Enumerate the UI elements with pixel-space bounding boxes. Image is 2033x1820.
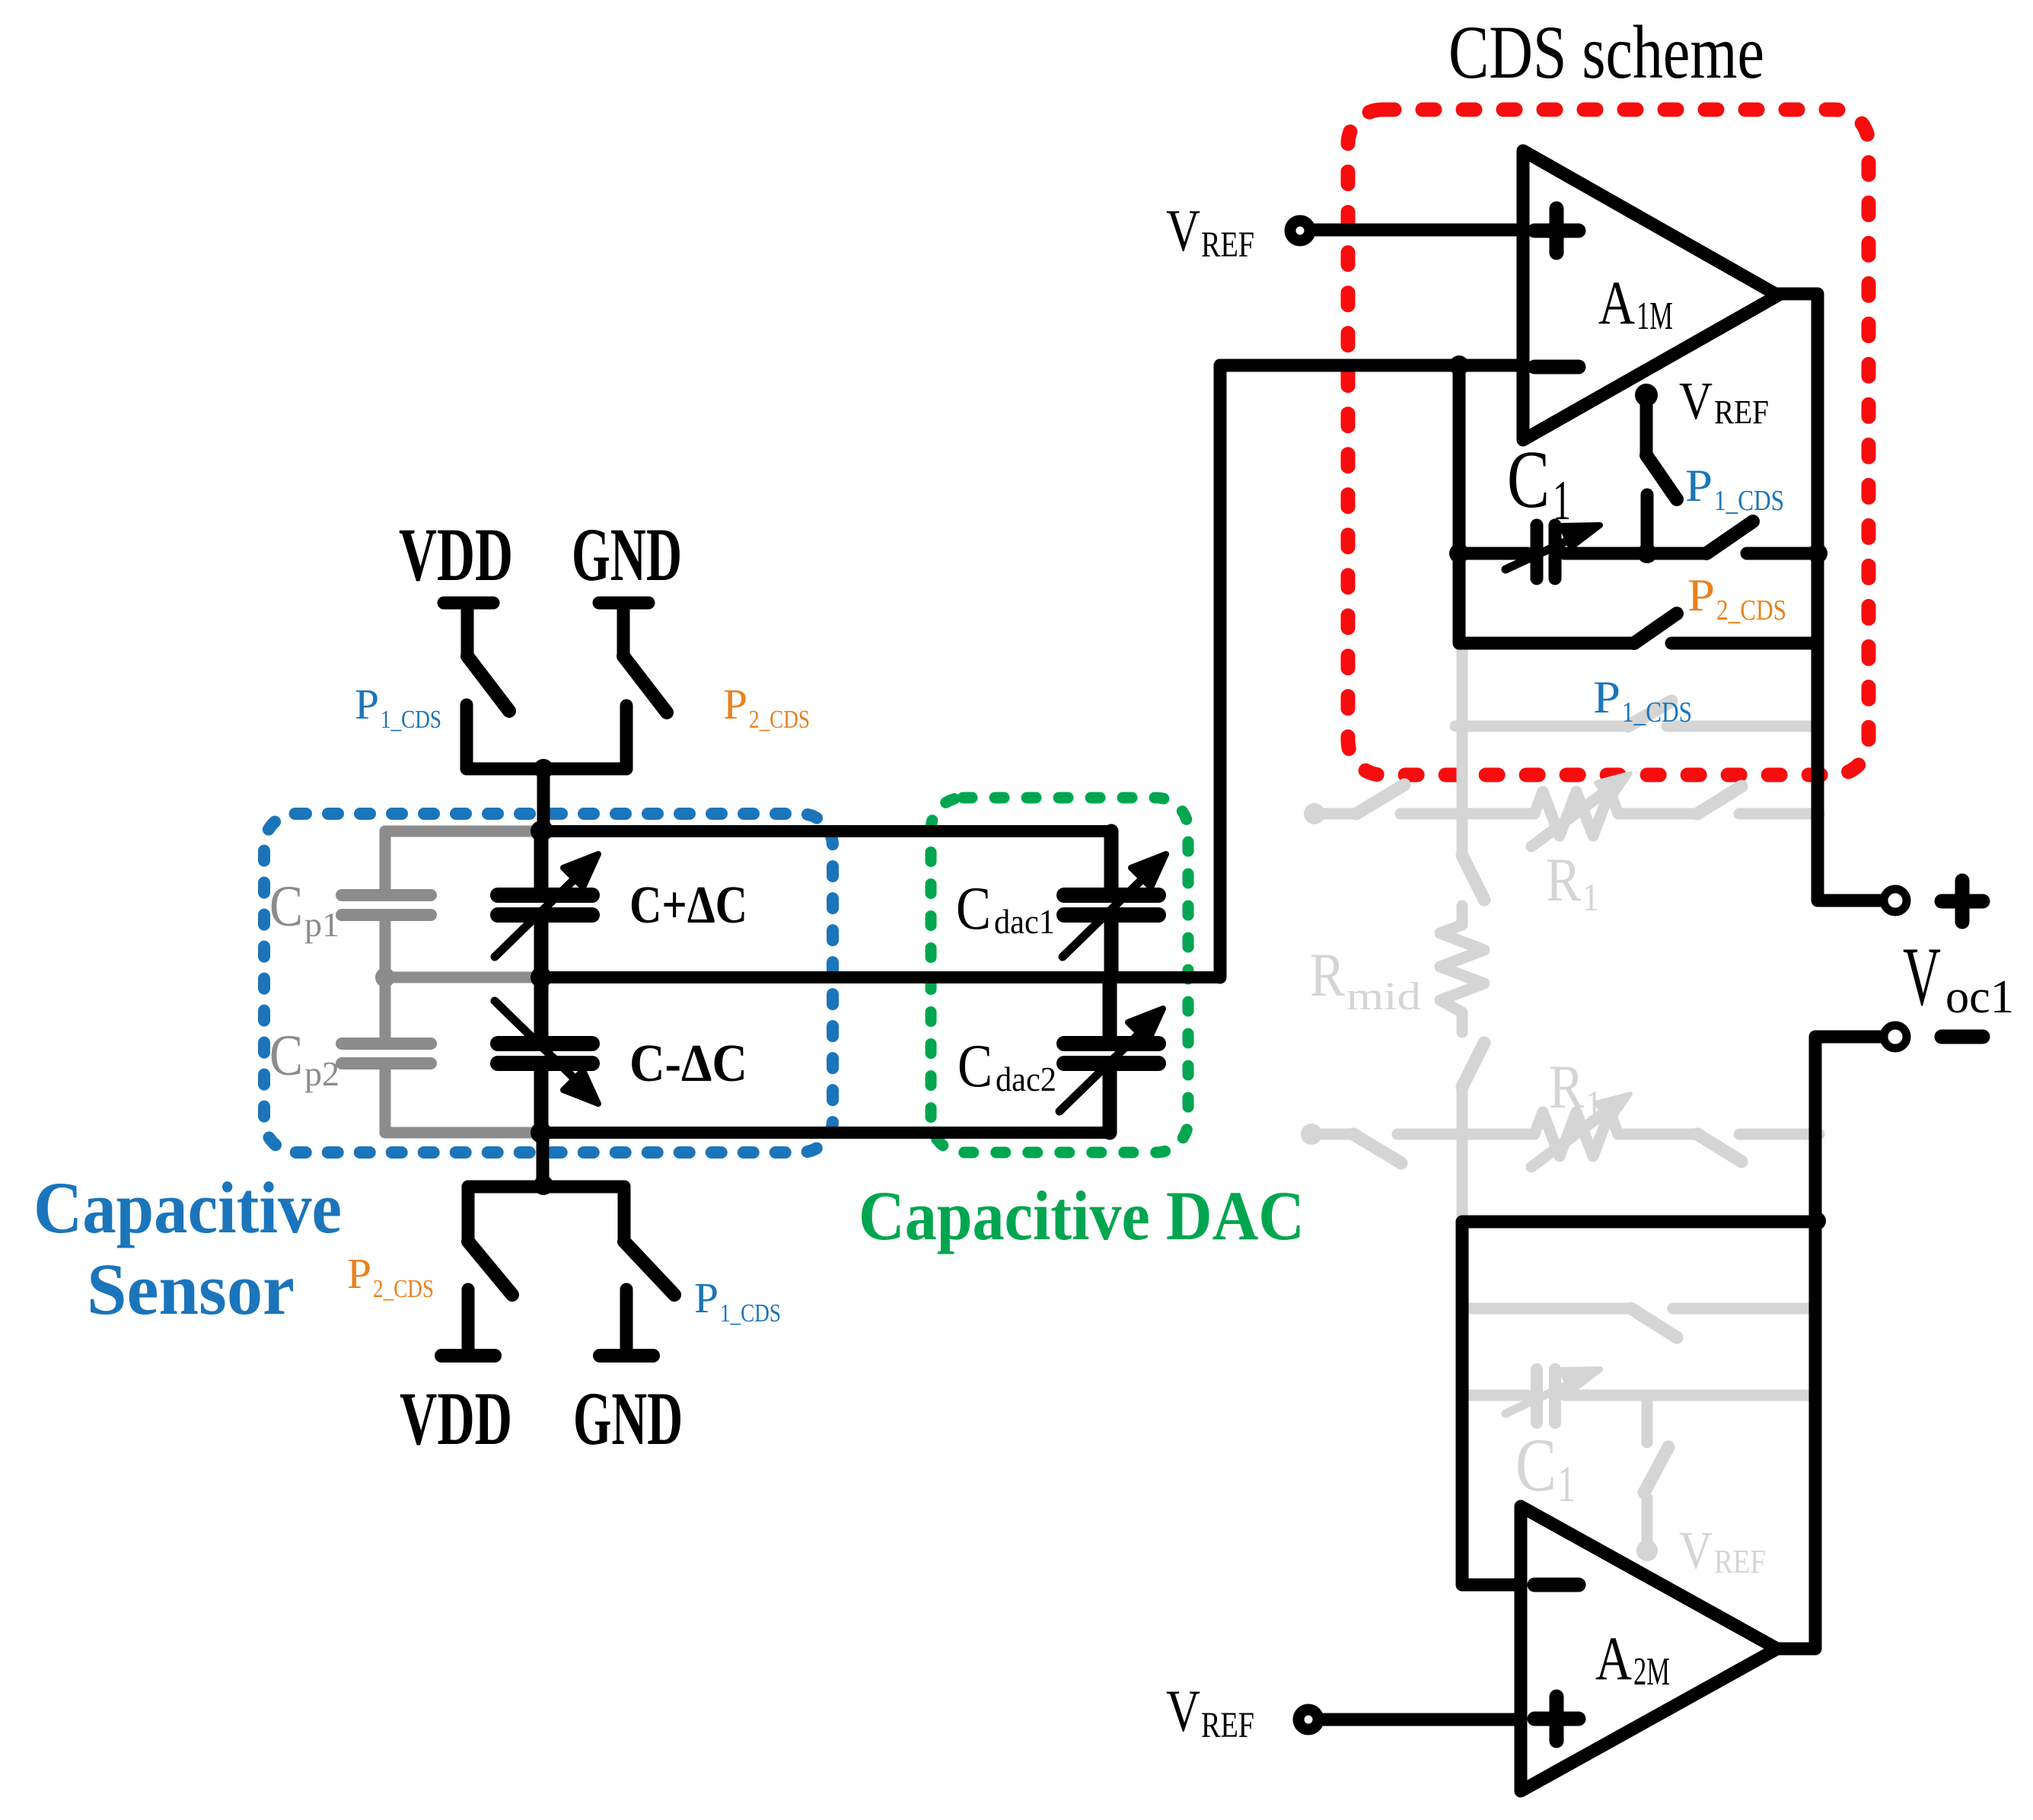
- svg-text:P: P: [694, 1275, 719, 1322]
- op-amp A2M plus sign: [1534, 1697, 1579, 1741]
- SECTION: labels: [399, 10, 2014, 1745]
- capacitor C-dC: [495, 1001, 592, 1085]
- switch P2_CDS GND top: blade: [623, 656, 667, 712]
- svg-text:GND: GND: [572, 512, 682, 597]
- node gray VREF terminal: [1636, 1540, 1658, 1561]
- wire minus input: [1220, 359, 1523, 372]
- vertical Rmid chain: [1457, 643, 1468, 856]
- label P1_CDS bottom-right: [694, 1275, 781, 1328]
- switch P1_CDS gray bottom row: [1311, 1129, 1353, 1140]
- svg-text:1M: 1M: [1636, 295, 1673, 338]
- wire junction vertical bottom: [537, 1133, 550, 1187]
- wire bottom bus: [541, 1127, 1110, 1139]
- resistor R1 top zigzag: [1534, 792, 1618, 836]
- wire A2M feedback box: [1462, 1222, 1815, 1585]
- wire sensor center vertical: [534, 831, 549, 895]
- svg-text:V: V: [1903, 930, 1941, 1023]
- node C1 row left junction: [1449, 543, 1469, 563]
- resistor R1 bottom arrow: [1531, 1111, 1608, 1167]
- svg-text:Capacitive: Capacitive: [33, 1167, 342, 1248]
- svg-text:1: 1: [1585, 1083, 1602, 1127]
- svg-text:C: C: [956, 875, 991, 942]
- label C1 gray: [1515, 1423, 1576, 1512]
- svg-text:REF: REF: [1714, 1543, 1766, 1580]
- wire C1 row left: [1459, 547, 1528, 560]
- svg-text:C-ΔC: C-ΔC: [629, 1034, 747, 1093]
- wire U bar top: [467, 763, 626, 776]
- wire gray vertical segments: [380, 831, 391, 889]
- node sensor mid junction: [531, 967, 552, 988]
- switch P1_CDS C1-row: contact: [1747, 547, 1818, 560]
- label P2_CDS row: [1687, 570, 1786, 626]
- label R1 top gray: [1546, 845, 1599, 920]
- wire junction vertical top: [537, 769, 550, 831]
- switch P2_CDS VDD bottom: contact bar: [441, 1349, 495, 1363]
- svg-text:Capacitive DAC: Capacitive DAC: [859, 1177, 1305, 1254]
- SECTION: cds-right: [1220, 110, 1983, 1791]
- switch P1_CDS reset: stub: [1640, 399, 1653, 455]
- switch P2_CDS GND top: lower terminal: [620, 706, 633, 769]
- label Capacitive Sensor: [33, 1167, 342, 1330]
- gray parasitic branch wires: [385, 831, 541, 1133]
- svg-text:REF: REF: [1714, 394, 1769, 431]
- node A2M feedback junction: [1808, 1212, 1826, 1230]
- switch P1_CDS gray top row: [1314, 808, 1356, 820]
- capacitor Cp2: [342, 1044, 431, 1063]
- label Cp1 gray: [269, 875, 339, 944]
- svg-text:P: P: [1593, 672, 1620, 722]
- switch P1_CDS GND bottom: blade: [624, 1241, 674, 1295]
- op-amp A1M plus sign: [1534, 209, 1579, 253]
- svg-text:R: R: [1310, 940, 1345, 1009]
- svg-text:2_CDS: 2_CDS: [749, 706, 810, 734]
- switch P1_CDS reset: lower stub: [1641, 495, 1654, 553]
- svg-text:C: C: [1515, 1423, 1557, 1507]
- label Cp2 gray: [269, 1024, 339, 1093]
- svg-text:V: V: [1679, 372, 1713, 431]
- wire U bar bottom: [468, 1181, 624, 1194]
- black wires CDS: [1220, 230, 1880, 1720]
- switch P1_CDS VDD top: contact bar: [444, 597, 493, 610]
- svg-text:oc1: oc1: [1945, 971, 2014, 1023]
- switch P1_CDS reset: blade: [1646, 455, 1677, 499]
- CDS scheme red dashed box: [1348, 110, 1869, 775]
- node bottom switch junction: [534, 1175, 553, 1195]
- node VREF switch top: [1635, 384, 1658, 406]
- svg-text:1_CDS: 1_CDS: [720, 1299, 781, 1328]
- capacitor Cdac2: [1060, 1027, 1158, 1111]
- wire gray bottom: [385, 1127, 541, 1139]
- svg-text:mid: mid: [1346, 975, 1421, 1018]
- symbol plus output: [1942, 881, 1983, 922]
- svg-text:R: R: [1549, 1052, 1584, 1121]
- svg-text:2_CDS: 2_CDS: [373, 1275, 434, 1303]
- capacitor C1 plates: [1506, 525, 1568, 579]
- wire P2 row: [1459, 637, 1634, 650]
- switch P2_CDS VDD bottom: stub: [462, 1187, 475, 1241]
- node top switch junction: [534, 759, 553, 779]
- switch P1_CDS GND bottom: contact bar: [600, 1349, 653, 1363]
- resistor Rmid zigzag: [1440, 925, 1484, 1012]
- green dashed box Capacitive DAC: [931, 798, 1188, 1152]
- svg-text:p1: p1: [304, 905, 339, 944]
- svg-text:1_CDS: 1_CDS: [381, 706, 441, 734]
- svg-text:C: C: [1507, 435, 1550, 525]
- svg-text:V: V: [1166, 1678, 1200, 1744]
- wire Cdac2 branch: [1103, 977, 1117, 1044]
- wire Cdac1 branch: [1104, 831, 1119, 895]
- svg-text:1_CDS: 1_CDS: [1714, 485, 1784, 517]
- capacitor Cp1: [342, 895, 431, 915]
- svg-text:1: 1: [1582, 876, 1599, 920]
- svg-text:A: A: [1595, 1624, 1632, 1693]
- svg-text:1_CDS: 1_CDS: [1622, 696, 1692, 728]
- terminal VREF bottom: [1299, 1710, 1318, 1729]
- svg-text:P: P: [1687, 570, 1715, 620]
- terminal VREF top: [1290, 221, 1310, 241]
- label Rmid gray: [1310, 940, 1421, 1018]
- svg-text:dac1: dac1: [994, 902, 1055, 941]
- light gray resistor network: [1311, 643, 1819, 1216]
- switch P1_CDS VDD top: stub: [461, 608, 474, 656]
- svg-text:C: C: [958, 1033, 993, 1100]
- svg-text:A: A: [1598, 268, 1635, 337]
- wire C1 row right: [1564, 547, 1706, 560]
- terminal Voc1 plus: [1884, 889, 1907, 912]
- switch P1_CDS C1-row: blade: [1706, 521, 1753, 553]
- wire VREF+ input A2M: [1321, 1713, 1521, 1726]
- terminal Voc1 minus: [1884, 1025, 1907, 1048]
- capacitor C1 gray row: [1468, 1390, 1528, 1401]
- top switch pair to VDD / GND: [444, 603, 667, 831]
- svg-text:GND: GND: [573, 1376, 683, 1461]
- svg-text:2M: 2M: [1633, 1650, 1670, 1694]
- switch P2_CDS GND top: contact bar: [599, 597, 648, 610]
- label P1_CDS reset: [1685, 461, 1784, 517]
- symbol minus output: [1942, 1030, 1983, 1044]
- svg-text:P: P: [347, 1251, 371, 1298]
- switch P2_CDS VDD bottom: blade: [468, 1241, 512, 1295]
- node minus junction: [1449, 355, 1469, 375]
- A2M gray inner copy: [1468, 1308, 1810, 1545]
- svg-text:C+ΔC: C+ΔC: [629, 876, 747, 935]
- blue dashed box Capacitive Sensor: [264, 814, 833, 1152]
- node top bus tap: [534, 821, 553, 840]
- wire VREF+ input: [1311, 224, 1523, 237]
- svg-text:CDS scheme: CDS scheme: [1448, 10, 1764, 94]
- switch P2_CDS GND top: stub: [617, 608, 630, 656]
- label P1_CDS gray row: [1593, 672, 1692, 728]
- wire gray mid: [385, 972, 541, 983]
- svg-text:1: 1: [1553, 470, 1571, 532]
- bottom switch pair to VDD / GND: [441, 1133, 674, 1356]
- svg-text:C: C: [269, 875, 303, 939]
- switch P2_CDS row: blade: [1634, 614, 1677, 643]
- wire output minus: [1779, 1037, 1880, 1649]
- wire sense vertical: [1214, 365, 1227, 977]
- label R1 bottom gray: [1549, 1052, 1602, 1127]
- svg-text:2_CDS: 2_CDS: [1716, 594, 1786, 626]
- node gray bottom-left terminal: [1301, 1124, 1322, 1145]
- svg-text:REF: REF: [1201, 1705, 1254, 1745]
- switch VREF gray: [1642, 1395, 1653, 1442]
- node gray top-left terminal: [1304, 803, 1325, 824]
- op-amp A2M minus sign: [1534, 1578, 1579, 1592]
- capacitor Cdac1: [1063, 872, 1158, 957]
- svg-text:VDD: VDD: [399, 512, 513, 597]
- svg-text:dac2: dac2: [996, 1060, 1056, 1098]
- op-amp A1M: [1523, 151, 1778, 440]
- switch P2_CDS VDD bottom: lower terminal: [462, 1289, 475, 1349]
- switch P1_CDS GND bottom: lower terminal: [620, 1289, 633, 1349]
- resistor R1 bottom zigzag: [1534, 1112, 1618, 1156]
- node C1 contact output junction: [1808, 543, 1827, 563]
- svg-text:REF: REF: [1201, 225, 1254, 265]
- switch P1_CDS VDD top: blade: [467, 656, 509, 711]
- label P2_CDS top-right: [723, 681, 810, 734]
- node gray mid junction: [375, 967, 395, 987]
- svg-text:P: P: [723, 681, 747, 728]
- switch P1_CDS GND bottom: stub: [618, 1187, 631, 1241]
- svg-text:V: V: [1679, 1522, 1713, 1580]
- node sensor bottom junction: [531, 1122, 552, 1143]
- switch P1_CDS gray feedback row: [1455, 721, 1628, 732]
- wire top bus: [541, 831, 1220, 1133]
- capacitor C+dC: [495, 872, 592, 957]
- svg-text:P: P: [1685, 461, 1713, 511]
- wire gray top: [385, 826, 541, 837]
- SECTION: sensor-left: [264, 603, 1220, 1356]
- node sensor top junction: [531, 821, 552, 842]
- svg-text:Sensor: Sensor: [87, 1248, 295, 1330]
- svg-text:R: R: [1546, 845, 1581, 914]
- label VREF gray: [1679, 1522, 1766, 1580]
- wire output plus: [1778, 294, 1880, 900]
- svg-text:1: 1: [1557, 1455, 1576, 1512]
- switch P1_CDS VDD top: lower terminal: [460, 705, 473, 769]
- op-amp A1M minus sign: [1534, 360, 1579, 375]
- svg-text:p2: p2: [304, 1054, 339, 1093]
- label P2_CDS bottom-left: [347, 1251, 434, 1303]
- wire middle bus: [541, 971, 1220, 983]
- node P1 stub junction: [1637, 543, 1657, 563]
- resistor R1 top arrow: [1531, 790, 1608, 846]
- svg-text:P: P: [355, 681, 379, 728]
- op-amp A2M: [1521, 1506, 1777, 1791]
- svg-text:V: V: [1166, 197, 1200, 263]
- switch P2_CDS row: contact: [1671, 637, 1818, 650]
- svg-text:C: C: [269, 1024, 303, 1088]
- label P1_CDS top-left: [355, 681, 441, 734]
- switch P2 gray row: [1468, 1303, 1631, 1315]
- svg-text:VDD: VDD: [400, 1376, 512, 1461]
- wire feedback vertical: [1453, 365, 1466, 643]
